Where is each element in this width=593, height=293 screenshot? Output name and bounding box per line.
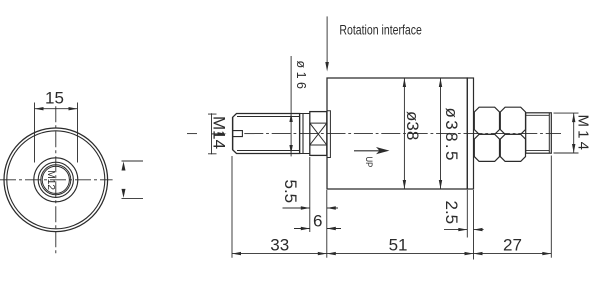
dim 33 left arrow: [232, 252, 241, 255]
front view vertical centerline: [55, 106, 57, 255]
hex nut 1 bottom half: [474, 134, 499, 161]
front view flat mark top arrow: [122, 162, 126, 171]
side view centerline: [244, 133, 561, 135]
dim 27 right arrow: [542, 252, 551, 255]
M14 left extension ticks: [208, 114, 217, 154]
dimension 6 line: [294, 228, 341, 230]
dimension 2.5 line: [444, 229, 484, 231]
stud M14 outline: [233, 114, 300, 154]
svg-text:ø38.5: ø38.5: [442, 108, 461, 161]
front view thread minor circle: [41, 165, 71, 195]
front view flat mark top line: [122, 160, 144, 162]
hex nut 1 top half: [474, 107, 499, 134]
body face boss behind collar: [327, 111, 330, 158]
front view flat mark bottom line: [122, 197, 144, 199]
M14 right top arrow: [572, 113, 575, 122]
stub chamfer line: [548, 113, 550, 153]
svg-text:M12: M12: [45, 170, 57, 190]
up arrow: [354, 150, 381, 152]
collar box: [310, 112, 327, 156]
side view centerline left dash: [187, 133, 197, 135]
neck top and bottom: [300, 114, 310, 154]
collar flat lines: [310, 123, 327, 145]
ø38.5 dimension line: [440, 78, 442, 189]
ø38.5 bottom arrow: [439, 180, 442, 189]
svg-text:6: 6: [313, 212, 322, 231]
svg-text:2.5: 2.5: [442, 201, 461, 225]
svg-text:M14: M14: [575, 115, 592, 151]
main body: [327, 78, 467, 189]
collar cross X: [310, 123, 327, 145]
threaded stub outline: [526, 113, 552, 153]
svg-text:ø38: ø38: [403, 111, 422, 140]
ø16 bottom arrow: [289, 145, 292, 154]
ø16 dimension line: [290, 56, 292, 156]
svg-text:33: 33: [270, 236, 289, 255]
front view horizontal centerline: [0, 179, 113, 181]
extension line stub right: [550, 156, 552, 258]
svg-text:Rotation interface: Rotation interface: [339, 23, 422, 38]
dimension 5.5 line: [283, 207, 339, 209]
dim 33/51 arrows at body left: [318, 252, 327, 255]
bottom dimension line: [232, 253, 551, 255]
body end cap: [467, 78, 473, 189]
front view M12 major circle: [38, 162, 73, 197]
stud left face: [232, 117, 234, 149]
extension line collar left: [309, 157, 311, 232]
dimension 2.5 arrows: [458, 228, 467, 231]
extension line body left: [326, 190, 328, 258]
ø38 dimension line: [403, 78, 405, 189]
ø38 bottom arrow: [403, 180, 406, 189]
svg-text:UP: UP: [364, 157, 374, 168]
svg-text:15: 15: [45, 89, 64, 108]
ø38.5 top arrow: [439, 78, 442, 87]
svg-text:5.5: 5.5: [281, 180, 300, 204]
ø16 top arrow: [289, 113, 292, 122]
ø38 top arrow: [403, 78, 406, 87]
front view outer circle: [4, 128, 108, 232]
dimension 15 line: [35, 108, 78, 110]
stub thread inner lines: [526, 115, 550, 150]
dimension 5.5 arrows: [301, 206, 310, 209]
svg-text:27: 27: [503, 236, 522, 255]
extension line stud left: [231, 156, 233, 258]
svg-text:ø16: ø16: [294, 61, 308, 90]
front view collar circle: [34, 158, 78, 202]
M14 left leader arrow: [212, 133, 224, 135]
svg-text:51: 51: [389, 236, 408, 255]
dim 51/27 arrows at body right: [465, 252, 474, 255]
M14 right bottom arrow: [572, 144, 575, 153]
hex nut 2 top half: [500, 107, 525, 134]
M14 left dimension line: [211, 113, 213, 154]
extension line cap inner: [466, 190, 468, 238]
dimension 6 arrows: [301, 227, 310, 230]
front view chamfer circle: [42, 166, 69, 193]
neck step lines: [300, 114, 303, 154]
stud slot: [233, 131, 243, 137]
dimension 15 right arrow: [69, 107, 78, 110]
rotation interface arrow: [326, 16, 328, 68]
hex nut 2 bottom half: [500, 134, 525, 161]
stud thread inner lines: [237, 117, 300, 151]
dimension 15 extension lines: [35, 103, 78, 163]
M14 right dimension line: [573, 113, 575, 153]
extension line body right: [473, 190, 475, 260]
M14 right extension lines: [554, 113, 579, 153]
front view flat mark bottom arrow: [122, 189, 126, 198]
front view second circle: [7, 131, 105, 229]
dimension 15 left arrow: [35, 107, 44, 110]
